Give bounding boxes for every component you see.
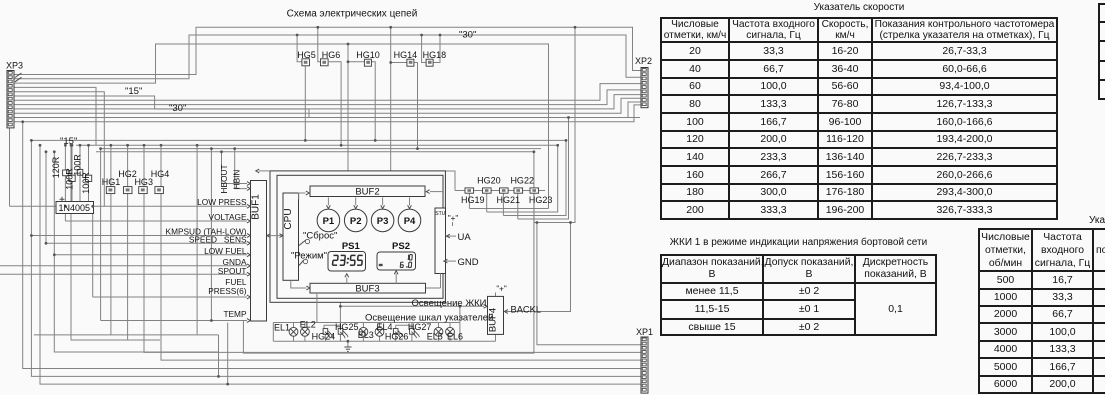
svg-text:HG20: HG20 bbox=[477, 175, 501, 185]
svg-text:HG18: HG18 bbox=[423, 50, 447, 60]
svg-text:HG21: HG21 bbox=[497, 195, 521, 205]
svg-text:PRESS(6): PRESS(6) bbox=[208, 286, 247, 296]
svg-text:"Режим": "Режим" bbox=[291, 251, 327, 262]
svg-text:120R: 120R bbox=[51, 156, 61, 178]
svg-text:"30": "30" bbox=[459, 30, 476, 41]
svg-text:HG23: HG23 bbox=[529, 195, 553, 205]
svg-text:"15": "15" bbox=[60, 136, 77, 147]
svg-text:"+": "+" bbox=[448, 214, 459, 223]
svg-text:CPU: CPU bbox=[283, 208, 294, 229]
svg-text:HG5: HG5 bbox=[297, 50, 316, 60]
svg-text:HG25: HG25 bbox=[335, 322, 359, 332]
svg-text:HG14: HG14 bbox=[394, 50, 418, 60]
svg-text:"30": "30" bbox=[169, 103, 186, 114]
svg-text:HG19: HG19 bbox=[461, 195, 485, 205]
svg-text:BUF1: BUF1 bbox=[251, 194, 262, 220]
svg-text:Освещение ЖКИ: Освещение ЖКИ bbox=[412, 298, 487, 309]
svg-text:HG24: HG24 bbox=[312, 332, 336, 342]
svg-text:HG27: HG27 bbox=[408, 322, 432, 332]
svg-text:PS2: PS2 bbox=[392, 241, 410, 252]
svg-text:P3: P3 bbox=[377, 216, 389, 227]
svg-text:VOLTAGE: VOLTAGE bbox=[209, 212, 247, 222]
svg-text:HBIN: HBIN bbox=[232, 170, 242, 190]
svg-text:EL2: EL2 bbox=[300, 320, 316, 330]
svg-text:HG6: HG6 bbox=[322, 50, 341, 60]
svg-text:SPEED SENS: SPEED SENS bbox=[189, 234, 247, 244]
svg-text:SPOUT: SPOUT bbox=[218, 266, 247, 276]
svg-text:XP3: XP3 bbox=[6, 61, 23, 71]
svg-text:1N4005: 1N4005 bbox=[59, 203, 91, 213]
svg-text:PS1: PS1 bbox=[342, 241, 361, 252]
svg-text:HBOUT: HBOUT bbox=[219, 164, 229, 193]
svg-text:HG10: HG10 bbox=[356, 50, 380, 60]
svg-text:"Сброс": "Сброс" bbox=[303, 231, 337, 242]
svg-text:EL5: EL5 bbox=[427, 332, 443, 342]
svg-text:HG26: HG26 bbox=[385, 332, 409, 342]
svg-text:Схема электрических цепей: Схема электрических цепей bbox=[287, 9, 418, 20]
svg-text:LOW PRESS: LOW PRESS bbox=[197, 197, 247, 207]
svg-text:TEMP: TEMP bbox=[223, 309, 247, 319]
svg-text:EL1: EL1 bbox=[274, 322, 290, 332]
svg-text:EL6: EL6 bbox=[447, 332, 463, 342]
svg-text:HG22: HG22 bbox=[510, 175, 534, 185]
svg-text:GND: GND bbox=[458, 257, 479, 268]
svg-text:EL3: EL3 bbox=[358, 330, 374, 340]
svg-text:"15": "15" bbox=[125, 86, 142, 97]
svg-text:P2: P2 bbox=[350, 216, 362, 227]
svg-text:EL4: EL4 bbox=[376, 322, 392, 332]
svg-text:XP1: XP1 bbox=[636, 327, 653, 337]
svg-text:BUF2: BUF2 bbox=[355, 187, 379, 198]
svg-text:100R: 100R bbox=[81, 172, 91, 194]
svg-text:BACKL: BACKL bbox=[511, 304, 542, 314]
svg-text:XP2: XP2 bbox=[635, 56, 652, 66]
svg-text:P1: P1 bbox=[323, 216, 335, 227]
svg-text:HG4: HG4 bbox=[151, 169, 170, 179]
svg-text:STU: STU bbox=[435, 211, 445, 217]
svg-text:P4: P4 bbox=[404, 216, 416, 227]
svg-text:"+": "+" bbox=[496, 285, 507, 294]
svg-text:BUF3: BUF3 bbox=[355, 284, 379, 295]
svg-text:UA: UA bbox=[458, 232, 472, 243]
svg-text:LOW FUEL: LOW FUEL bbox=[204, 246, 247, 256]
